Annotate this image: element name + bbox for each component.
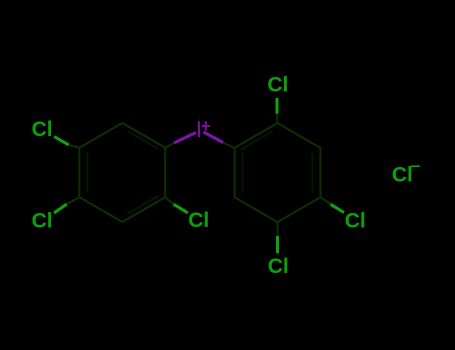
svg-text:Cl: Cl [188, 209, 209, 232]
svg-text:Cl: Cl [32, 210, 53, 233]
svg-text:Cl: Cl [392, 164, 413, 187]
svg-text:Cl: Cl [32, 118, 53, 141]
svg-text:Cl: Cl [268, 255, 289, 278]
svg-text:Cl: Cl [267, 74, 288, 97]
svg-text:Cl: Cl [345, 209, 366, 232]
